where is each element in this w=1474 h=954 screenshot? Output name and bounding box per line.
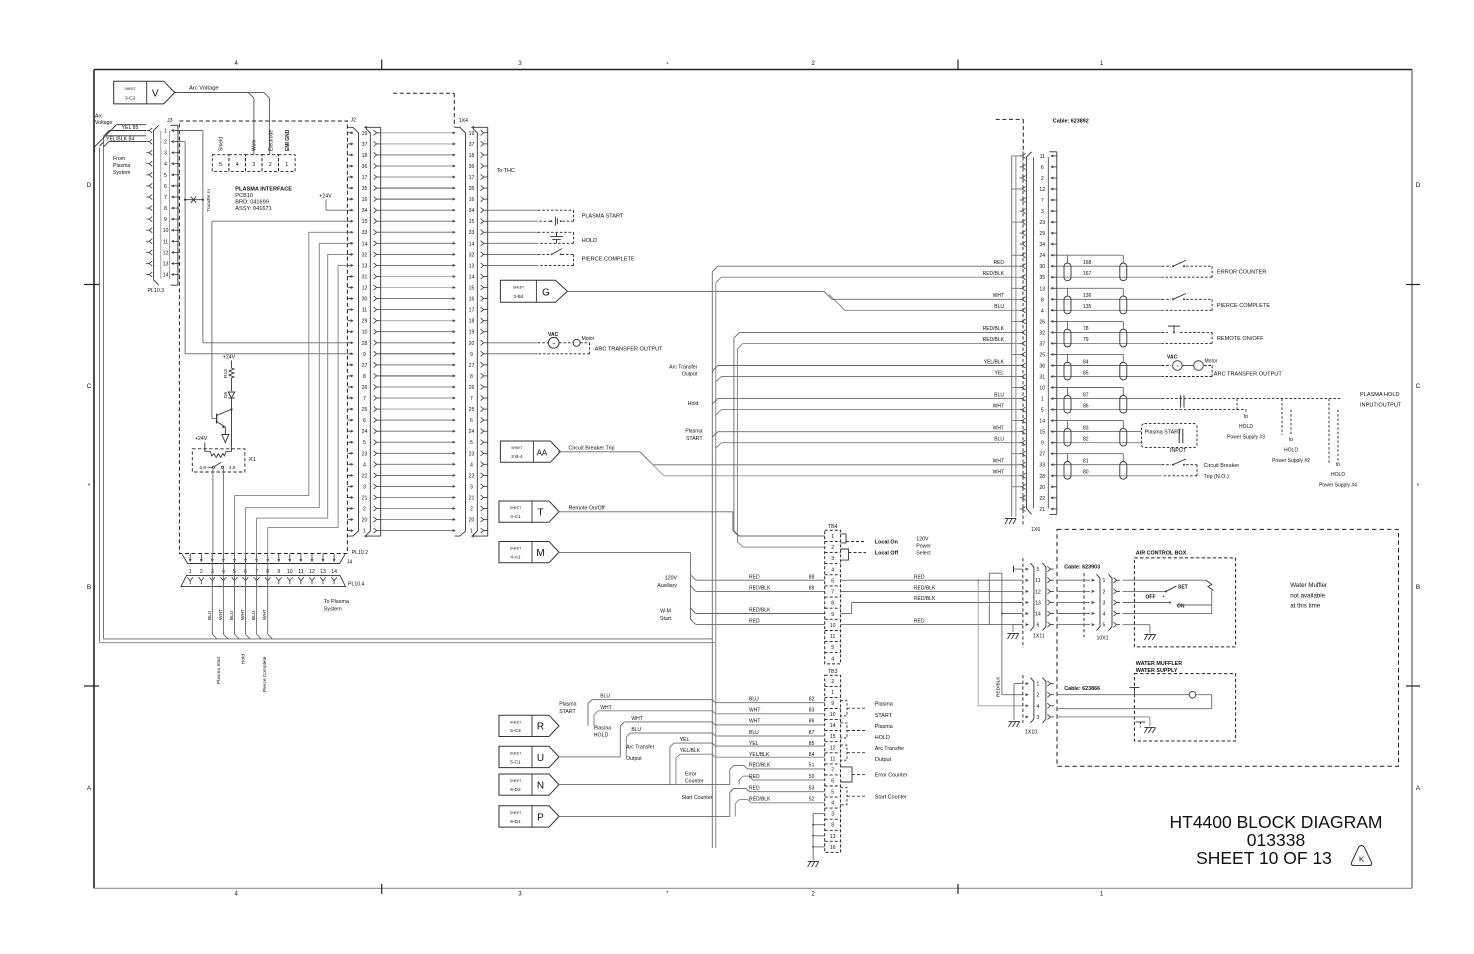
wires error counter RED-BLK/RED to TB3 — [685, 765, 825, 784]
svg-text:A: A — [1416, 785, 1421, 792]
svg-text:SHEET: SHEET — [513, 286, 524, 290]
svg-text:12: 12 — [362, 286, 368, 292]
svg-text:RED: RED — [749, 774, 760, 780]
cable boundary dashed along 1X6 — [1022, 152, 1024, 528]
svg-text:VAC: VAC — [1167, 355, 1178, 361]
svg-text:84: 84 — [1083, 359, 1089, 365]
svg-text:5: 5 — [470, 440, 473, 446]
svg-text:7: 7 — [831, 767, 834, 773]
svg-text:~: ~ — [552, 341, 556, 347]
svg-text:9: 9 — [470, 352, 473, 358]
svg-text:82: 82 — [809, 697, 815, 703]
wire branches hold rows 1/5 (BLU/WHT) — [688, 399, 1020, 416]
svg-text:27: 27 — [469, 363, 475, 369]
svg-text:11: 11 — [830, 756, 835, 762]
svg-text:9: 9 — [363, 352, 366, 358]
svg-text:WHT: WHT — [749, 719, 760, 725]
svg-text:32: 32 — [469, 252, 475, 258]
svg-text:3 B-4: 3 B-4 — [511, 454, 523, 460]
svg-text:14: 14 — [163, 273, 169, 279]
wire RED/BLK riser to 1X11 pin14 and 1X10 pin2 — [989, 573, 1023, 697]
svg-text:15: 15 — [469, 219, 475, 225]
svg-text:10: 10 — [830, 712, 836, 718]
wire bottom bus to TB3 area — [100, 639, 716, 643]
svg-text:to: to — [1244, 414, 1248, 420]
svg-text:3: 3 — [363, 484, 366, 490]
svg-text:Remote On/Off: Remote On/Off — [569, 505, 606, 511]
svg-text:24: 24 — [469, 429, 475, 435]
label PLASMA INTERFACE PCB10 — [235, 187, 292, 213]
svg-text:RED: RED — [749, 619, 760, 625]
svg-text:Arc Transfer: Arc Transfer — [626, 745, 655, 751]
sheet reference N (6-D2) — [499, 774, 559, 795]
svg-text:10X1: 10X1 — [1097, 636, 1109, 642]
svg-text:3: 3 — [1041, 209, 1044, 215]
svg-text:HOLD: HOLD — [1239, 424, 1253, 430]
svg-text:RED/BLK: RED/BLK — [914, 596, 936, 602]
svg-text:RED/BLK: RED/BLK — [983, 337, 1005, 343]
svg-text:3: 3 — [1103, 601, 1106, 607]
svg-text:6-D2: 6-D2 — [510, 787, 521, 793]
svg-text:Power Supply #2: Power Supply #2 — [1272, 458, 1310, 464]
svg-text:10: 10 — [163, 228, 169, 234]
svg-text:Power Supply #4: Power Supply #4 — [1319, 483, 1357, 489]
svg-text:HOLD: HOLD — [875, 735, 890, 741]
labels shield work electrode emi-gnd (rotated) — [219, 129, 292, 151]
svg-text:12: 12 — [309, 569, 315, 575]
svg-text:32: 32 — [362, 252, 368, 258]
svg-text:27: 27 — [362, 363, 368, 369]
svg-text:RED: RED — [749, 574, 760, 580]
svg-text:EMI GND: EMI GND — [285, 129, 291, 151]
svg-text:Water Muffler: Water Muffler — [1290, 582, 1327, 589]
label From Plasma System — [113, 156, 130, 176]
terminal block TB4 — [825, 524, 841, 664]
svg-text:12: 12 — [1039, 187, 1045, 193]
svg-text:6: 6 — [1041, 165, 1044, 171]
svg-text:Arc Voltage: Arc Voltage — [189, 86, 219, 92]
svg-text:From: From — [113, 156, 125, 162]
svg-text:9: 9 — [1041, 441, 1044, 447]
svg-text:C: C — [87, 383, 92, 390]
PCB PLASMA INTERFACE dashed outline — [179, 121, 347, 554]
svg-text:START: START — [686, 436, 703, 442]
svg-text:13: 13 — [1035, 600, 1041, 606]
wires start counter RED/RED-BLK to TB3 — [558, 789, 825, 817]
svg-text:81: 81 — [1083, 459, 1089, 465]
svg-text:System: System — [113, 170, 130, 176]
svg-text:Plasma START: Plasma START — [1145, 429, 1182, 435]
svg-text:85: 85 — [809, 741, 815, 747]
svg-text:D: D — [1416, 182, 1421, 189]
relay K1 — [192, 449, 256, 472]
wires PL10.4 pins 3-8 to plasma system bus — [207, 554, 273, 639]
svg-text:PLASMA START: PLASMA START — [582, 214, 624, 220]
svg-text:R: R — [537, 722, 544, 733]
svg-text:13: 13 — [469, 263, 475, 269]
svg-text:35: 35 — [1039, 275, 1045, 281]
svg-text:9: 9 — [277, 569, 280, 575]
svg-text:6: 6 — [831, 578, 834, 584]
svg-text:+24V: +24V — [195, 436, 208, 442]
svg-text:D5: D5 — [223, 392, 229, 398]
svg-text:B: B — [87, 584, 91, 591]
label +24V (J2 row34 feed) — [319, 194, 347, 211]
svg-text:5-C1: 5-C1 — [510, 759, 521, 765]
svg-text:ASSY: 041671: ASSY: 041671 — [235, 206, 271, 212]
svg-text:2: 2 — [831, 545, 834, 551]
svg-text:Arc Transfer: Arc Transfer — [875, 746, 905, 752]
svg-text:Arc Transfer: Arc Transfer — [669, 364, 698, 370]
svg-text:21: 21 — [469, 496, 475, 502]
svg-text:25: 25 — [362, 407, 368, 413]
svg-text:26: 26 — [469, 385, 475, 391]
sheet reference T (4-C1) remote on/off — [499, 501, 605, 522]
svg-text:8: 8 — [470, 374, 473, 380]
svg-text:YEL: YEL — [680, 737, 690, 743]
svg-text:PLASMA HOLD: PLASMA HOLD — [1360, 392, 1399, 398]
svg-text:34: 34 — [1039, 242, 1045, 248]
power +24V (relay coil) — [195, 436, 208, 451]
svg-text:1X10: 1X10 — [1025, 730, 1037, 736]
svg-text:INPUT: INPUT — [1170, 448, 1187, 454]
svg-text:37: 37 — [469, 142, 475, 148]
svg-text:8: 8 — [363, 374, 366, 380]
svg-text:to: to — [1289, 437, 1293, 443]
svg-text:19: 19 — [469, 330, 475, 336]
frame zone labels bottom — [235, 884, 1104, 898]
svg-text:SHEET: SHEET — [125, 87, 136, 91]
svg-text:Motor: Motor — [582, 336, 595, 342]
svg-text:HOLD: HOLD — [594, 733, 609, 739]
svg-text:Power: Power — [916, 544, 931, 550]
svg-text:ARC TRANSFER OUTPUT: ARC TRANSFER OUTPUT — [595, 346, 664, 352]
svg-text:HOLD: HOLD — [1284, 448, 1298, 454]
svg-text:16: 16 — [362, 197, 368, 203]
switch X transfer-in on pin7 row — [184, 189, 212, 212]
svg-text:5: 5 — [164, 173, 167, 179]
TB3 right jumpers and labels — [841, 701, 908, 805]
svg-text:1: 1 — [831, 534, 834, 540]
svg-text:31: 31 — [1039, 375, 1045, 381]
svg-text:BLU: BLU — [631, 727, 641, 733]
svg-text:24: 24 — [1039, 253, 1045, 259]
svg-text:V: V — [152, 89, 159, 100]
wire branches arc-transfer rows 36/31 (YEL-BLK/YEL) — [669, 364, 1019, 382]
title HT4400 BLOCK DIAGRAM — [1170, 812, 1383, 868]
svg-text:2: 2 — [269, 162, 272, 168]
svg-text:3,6: 3,6 — [199, 465, 206, 471]
svg-text:12: 12 — [163, 250, 169, 256]
svg-text:2: 2 — [164, 140, 167, 146]
svg-text:RED: RED — [914, 619, 925, 625]
svg-text:START: START — [559, 709, 576, 715]
wire G to 1X6 rows 8/4 (WHT/BLU) — [567, 291, 1019, 310]
svg-text:2: 2 — [1036, 693, 1039, 699]
svg-text:BLU: BLU — [994, 392, 1004, 398]
svg-text:YEL/BLK: YEL/BLK — [749, 752, 770, 758]
svg-text:RED: RED — [914, 574, 925, 580]
svg-text:52: 52 — [809, 797, 815, 803]
svg-text:Power Supply #3: Power Supply #3 — [1227, 435, 1265, 441]
svg-text:HT4400 BLOCK DIAGRAM: HT4400 BLOCK DIAGRAM — [1170, 812, 1383, 832]
svg-text:START: START — [875, 713, 893, 719]
svg-text:89: 89 — [809, 585, 815, 591]
svg-text:K: K — [1359, 855, 1364, 864]
svg-text:Trip (N.O.): Trip (N.O.) — [1204, 474, 1229, 480]
connector PL10.3 — [146, 125, 164, 294]
svg-text:ERROR COUNTER: ERROR COUNTER — [1217, 270, 1266, 276]
svg-text:OFF: OFF — [1146, 595, 1156, 601]
sheet reference G (3-B4) — [500, 280, 567, 302]
svg-text:5: 5 — [219, 162, 222, 168]
wires plasma hold WHT/BLU to TB3 — [558, 716, 825, 757]
connector 1X10 — [1023, 675, 1054, 736]
wire K1 contacts to J4 pins 3-4 — [213, 468, 224, 553]
svg-text:BLU: BLU — [207, 610, 213, 620]
svg-text:51: 51 — [809, 763, 815, 769]
circuit remote on/off (1X6 26/32/37) — [1057, 321, 1264, 347]
motor VAC arc transfer output loop (THC) — [488, 332, 663, 354]
svg-text:10: 10 — [1039, 386, 1045, 392]
svg-text:Counter: Counter — [685, 779, 704, 785]
svg-text:21: 21 — [362, 496, 368, 502]
svg-text:36: 36 — [469, 164, 475, 170]
svg-text:87: 87 — [809, 730, 815, 736]
svg-text:4: 4 — [1103, 612, 1106, 618]
svg-text:1: 1 — [189, 569, 192, 575]
svg-text:PIERCE COMPLETE: PIERCE COMPLETE — [1217, 303, 1270, 309]
connector J3 (PCB side) — [163, 118, 180, 285]
svg-text:TB4: TB4 — [828, 524, 838, 530]
svg-text:3: 3 — [164, 151, 167, 157]
svg-text:WHT: WHT — [631, 716, 642, 722]
svg-text:ON: ON — [1177, 603, 1185, 609]
svg-text:35: 35 — [469, 186, 475, 192]
svg-text:8: 8 — [164, 206, 167, 212]
svg-text:14: 14 — [830, 723, 836, 729]
TB3 ground pins 3/8/13/16 — [812, 814, 825, 861]
svg-text:Shield: Shield — [219, 137, 225, 151]
svg-text:M: M — [536, 548, 544, 559]
svg-text:4-A1: 4-A1 — [510, 555, 520, 561]
svg-text:*: * — [88, 483, 91, 490]
svg-text:RED/BLK: RED/BLK — [749, 797, 771, 803]
svg-text:Local Off: Local Off — [875, 551, 899, 557]
svg-text:17: 17 — [469, 175, 475, 181]
svg-text:Plasma: Plasma — [113, 163, 130, 169]
svg-text:16: 16 — [469, 197, 475, 203]
svg-text:6: 6 — [470, 418, 473, 424]
svg-text:1X11: 1X11 — [1033, 634, 1045, 640]
connector work/electrode 5-pin dashed — [212, 155, 295, 172]
svg-text:80: 80 — [1083, 470, 1089, 476]
svg-text:4: 4 — [470, 462, 473, 468]
connector PL10.2 numbers column — [362, 131, 368, 535]
svg-text:RED: RED — [993, 260, 1004, 266]
circuit error counter (1X6 24/30/35) — [1057, 255, 1267, 281]
svg-text:11: 11 — [362, 308, 367, 314]
ground below TB3 — [808, 862, 819, 868]
svg-text:14: 14 — [331, 569, 337, 575]
svg-text:Pierce Complete: Pierce Complete — [262, 656, 268, 692]
svg-text:WHT: WHT — [218, 609, 224, 620]
svg-text:3-C2: 3-C2 — [125, 95, 136, 101]
svg-text:25: 25 — [469, 407, 475, 413]
circuit breaker trip N.O. (1X6 27/33/28) — [1057, 454, 1240, 480]
sheet reference M (4-A1) — [499, 542, 559, 563]
wire bundle J2 to 1X4 (37 rows) — [381, 132, 456, 532]
svg-text:34: 34 — [362, 208, 368, 214]
svg-text:Electrode: Electrode — [268, 130, 274, 151]
svg-text:Start Counter: Start Counter — [875, 794, 907, 800]
cable 623866 label — [1064, 686, 1100, 692]
svg-text:167: 167 — [1083, 271, 1092, 277]
wire T remote on/off to TB4 pin 1 — [558, 512, 825, 536]
svg-text:BLU: BLU — [749, 697, 759, 703]
wire labels near 1X6 left side — [983, 260, 1005, 476]
svg-text:Error: Error — [685, 771, 697, 777]
wire M to TB4 feeds (120V aux / W-M start) — [558, 552, 825, 624]
svg-text:Plasma: Plasma — [559, 702, 576, 708]
svg-text:013338: 013338 — [1247, 830, 1305, 850]
svg-text:HOLD: HOLD — [582, 238, 598, 244]
water supply loop with valve — [1056, 688, 1211, 709]
svg-text:*: * — [1417, 483, 1420, 490]
ground bus left of 1X6 — [1005, 156, 1020, 524]
svg-text:WATER SUPPLY: WATER SUPPLY — [1136, 668, 1178, 674]
svg-text:135: 135 — [1083, 304, 1092, 310]
svg-text:Work: Work — [252, 139, 258, 151]
svg-text:17: 17 — [469, 308, 475, 314]
svg-text:1: 1 — [831, 690, 834, 696]
svg-text:4: 4 — [1041, 308, 1044, 314]
connector J2 (PCB edge) — [347, 118, 358, 537]
svg-text:Select: Select — [916, 551, 931, 557]
frame zone labels right — [1406, 182, 1421, 792]
svg-text:14: 14 — [1035, 612, 1041, 618]
svg-text:15: 15 — [362, 219, 368, 225]
svg-text:PLASMA INTERFACE: PLASMA INTERFACE — [235, 187, 292, 193]
svg-text:B: B — [1416, 584, 1420, 591]
svg-text:VAC: VAC — [548, 332, 559, 338]
circuit plasma start input (1X6 14/15/9) — [1057, 421, 1197, 455]
svg-text:53: 53 — [809, 786, 815, 792]
svg-text:1: 1 — [1036, 682, 1039, 688]
wire J3 pin1 to J2 row 20 (transfer circuit) — [179, 131, 347, 343]
svg-text:17: 17 — [362, 175, 368, 181]
svg-text:16: 16 — [469, 297, 475, 303]
svg-text:82: 82 — [1083, 437, 1089, 443]
svg-text:To THC: To THC — [497, 168, 515, 174]
svg-text:Hold: Hold — [241, 654, 247, 664]
svg-text:Plasma: Plasma — [875, 724, 893, 730]
svg-text:Plasma: Plasma — [875, 702, 893, 708]
svg-text:K1: K1 — [249, 457, 256, 463]
svg-text:11: 11 — [163, 239, 168, 245]
svg-text:R13: R13 — [223, 369, 229, 378]
wires TB4 pins 6,7,9,10 to 1X11 — [841, 574, 1023, 624]
svg-text:30: 30 — [362, 297, 368, 303]
svg-text:J2: J2 — [351, 118, 357, 124]
WATER MUFFLER WATER SUPPLY dashed box — [1134, 661, 1235, 741]
svg-text:12: 12 — [830, 745, 836, 751]
diode D5 — [223, 380, 235, 409]
svg-text:PIERCE COMPLETE: PIERCE COMPLETE — [582, 257, 635, 263]
label 120V power select — [916, 537, 931, 557]
svg-text:BLU: BLU — [994, 437, 1004, 443]
svg-text:~: ~ — [1176, 364, 1179, 370]
wire branches plasma start rows 15/9 (WHT/BLU) — [685, 429, 1019, 449]
svg-text:BLU: BLU — [600, 694, 610, 700]
svg-text:37: 37 — [362, 142, 368, 148]
connector J4 — [182, 554, 352, 566]
svg-text:REMOTE ON/OFF: REMOTE ON/OFF — [1217, 336, 1264, 342]
svg-text:7: 7 — [831, 590, 834, 596]
svg-text:29: 29 — [362, 319, 368, 325]
wire YEL/BLK 84 from plasma system to PL10.3 pin 2 — [95, 136, 146, 643]
svg-text:SHEET: SHEET — [510, 811, 521, 815]
svg-text:22: 22 — [1039, 496, 1045, 502]
svg-text:85: 85 — [1083, 370, 1089, 376]
svg-text:36: 36 — [1039, 364, 1045, 370]
revision symbol K — [1351, 846, 1371, 866]
sheet reference AA (3 B-4) circuit breaker trip — [500, 441, 614, 462]
label water muffler not available — [1290, 582, 1327, 610]
svg-text:RED/BLK: RED/BLK — [983, 271, 1005, 277]
svg-text:WATER MUFFLER: WATER MUFFLER — [1136, 661, 1182, 667]
svg-text:Plasma Start: Plasma Start — [216, 656, 222, 684]
svg-text:4: 4 — [164, 162, 167, 168]
svg-text:WHT: WHT — [993, 470, 1004, 476]
svg-text:YEL/BLK: YEL/BLK — [984, 359, 1005, 365]
svg-text:J3: J3 — [167, 118, 173, 124]
svg-text:4: 4 — [831, 567, 834, 573]
svg-text:14: 14 — [469, 275, 475, 281]
label Arc Voltage (top wire) — [189, 86, 219, 92]
ground (emitter) — [222, 435, 229, 443]
svg-text:PL10.2: PL10.2 — [352, 550, 369, 556]
wire trunk risers to 1X6 (RED/RED-BLK rows 30/35) — [712, 266, 1019, 643]
svg-text:SHEET: SHEET — [510, 751, 521, 755]
svg-text:15: 15 — [1039, 430, 1045, 436]
svg-text:1X6: 1X6 — [1031, 527, 1040, 533]
svg-text:5: 5 — [1041, 408, 1044, 414]
svg-text:3: 3 — [1036, 715, 1039, 721]
svg-text:G: G — [542, 287, 550, 298]
svg-text:BRD: 041699: BRD: 041699 — [235, 200, 269, 206]
svg-text:Output: Output — [626, 756, 642, 762]
svg-text:Cable: 623903: Cable: 623903 — [1064, 565, 1100, 571]
svg-text:3: 3 — [831, 812, 834, 818]
svg-text:79: 79 — [1083, 337, 1089, 343]
svg-text:120V: 120V — [665, 576, 678, 582]
svg-text:33: 33 — [362, 230, 368, 236]
circuit plasma hold input/output (1X6 10/1/5) — [1057, 388, 1402, 414]
svg-text:4: 4 — [1036, 704, 1039, 710]
wire labels RED/REDBLK into TB4 — [749, 574, 815, 624]
svg-text:20: 20 — [362, 518, 368, 524]
svg-text:2: 2 — [1103, 589, 1106, 595]
svg-text:SET: SET — [1178, 584, 1188, 590]
svg-text:33: 33 — [469, 230, 475, 236]
svg-text:28: 28 — [1039, 474, 1045, 480]
svg-text:W-M: W-M — [660, 609, 671, 615]
svg-text:RED/BLK: RED/BLK — [996, 676, 1002, 697]
svg-text:14: 14 — [1039, 419, 1045, 425]
svg-text:PL10.4: PL10.4 — [348, 582, 365, 588]
svg-text:ARC TRANSFER OUTPUT: ARC TRANSFER OUTPUT — [1214, 372, 1283, 378]
